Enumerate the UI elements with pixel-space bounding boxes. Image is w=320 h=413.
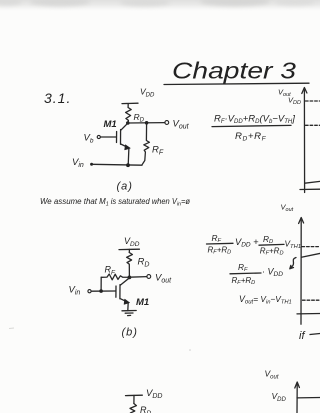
graph 1 y-axis	[302, 88, 307, 193]
svg-text:VDD +: VDD +	[235, 237, 259, 249]
resistor RF (a)	[142, 123, 149, 165]
svg-text:RF: RF	[238, 262, 248, 273]
svg-text:RD: RD	[263, 234, 273, 245]
svg-text:RD+RF: RD+RF	[235, 131, 267, 143]
stray mark mid	[189, 349, 191, 351]
resistor RF (b)	[101, 274, 129, 280]
node gate junction (b)	[99, 289, 103, 293]
resistor RD (c)	[130, 404, 136, 413]
svg-text:VDD: VDD	[272, 391, 287, 403]
svg-text:RF: RF	[152, 145, 164, 157]
graph 2 x-axis	[297, 313, 320, 315]
svg-text:Vout: Vout	[155, 273, 172, 285]
svg-text:RF+RD: RF+RD	[208, 245, 232, 255]
wire drain to Vout (a)	[128, 122, 165, 124]
graph 2 dashed upper level	[302, 246, 320, 248]
svg-text:(a): (a)	[117, 181, 133, 193]
svg-text:(b): (b)	[122, 327, 138, 339]
svg-text:· VDD: · VDD	[262, 267, 283, 279]
svg-text:if: if	[299, 330, 305, 342]
annotation arrow	[290, 258, 296, 269]
ground (b)	[122, 311, 136, 316]
equation 1 fraction bar	[212, 125, 291, 126]
svg-text:Vout= Vin−VTH1: Vout= Vin−VTH1	[239, 294, 292, 305]
resistor RD (b)	[127, 253, 133, 278]
svg-text:VTH1: VTH1	[285, 239, 302, 250]
svg-text:Vin: Vin	[72, 157, 84, 169]
svg-text:RF·VDD+RD(Vb−VTH]: RF·VDD+RD(Vb−VTH]	[214, 114, 295, 126]
svg-text:RD: RD	[138, 257, 150, 269]
wire gate (a)	[100, 136, 116, 138]
svg-text:RF: RF	[212, 233, 222, 244]
svg-text:VDD: VDD	[288, 96, 301, 107]
svg-text:Vout: Vout	[173, 119, 190, 131]
power VDD bar (c)	[126, 394, 143, 396]
svg-text:RD: RD	[134, 112, 145, 124]
terminal Vout (a)	[165, 121, 169, 125]
note if dash	[310, 334, 320, 335]
svg-text:We assume that M1 is saturated: We assume that M1 is saturated when Vin=…	[40, 196, 190, 207]
terminal Vin (a)	[90, 163, 93, 166]
svg-text:Chapter 3: Chapter 3	[172, 58, 296, 84]
wire VDD stub (b)	[128, 249, 130, 252]
svg-text:Vout: Vout	[281, 203, 294, 214]
svg-text:M1: M1	[136, 297, 149, 308]
svg-text:M1: M1	[104, 119, 117, 130]
wire VDD stub (a)	[127, 104, 129, 108]
svg-text:Vb: Vb	[84, 133, 94, 145]
stray mark left	[9, 327, 14, 330]
svg-text:VDD: VDD	[140, 87, 155, 99]
heading underline	[164, 83, 309, 84]
terminal Vout (b)	[147, 275, 151, 279]
wire gate (b)	[91, 290, 115, 292]
graph 1 curve	[305, 181, 320, 183]
svg-text:Vout: Vout	[265, 369, 279, 381]
svg-text:Vin: Vin	[69, 285, 81, 297]
svg-text:RD: RD	[140, 405, 152, 413]
node drain (a)	[126, 121, 130, 125]
wire node to Vout (b)	[129, 276, 147, 279]
transistor M1 (a)	[117, 124, 131, 165]
terminal Vb	[97, 135, 100, 138]
node output (b)	[127, 276, 131, 280]
resistor RD (a)	[126, 108, 132, 124]
power VDD bar (a)	[122, 102, 138, 104]
svg-text:RF+RD: RF+RD	[232, 276, 256, 286]
graph 2 dashed lower level	[303, 299, 320, 301]
transistor M1 (b)	[116, 278, 130, 310]
svg-text:VDD: VDD	[124, 236, 140, 248]
svg-text:RF+RD: RF+RD	[260, 246, 284, 256]
graph 1 dashed VDD level	[306, 100, 320, 102]
graph 3 VDD level line	[297, 397, 320, 399]
graph 1 x-axis	[300, 188, 320, 190]
svg-text:VDD: VDD	[146, 388, 162, 400]
svg-text:3.1.: 3.1.	[44, 90, 71, 106]
node source rail (a)	[126, 163, 130, 167]
terminal Vin (b)	[88, 290, 91, 293]
wire bottom rail (a)	[93, 163, 143, 166]
power VDD bar (b)	[119, 248, 139, 250]
wire VDD stub (c)	[133, 395, 135, 403]
wire RF left leg (b)	[100, 277, 102, 291]
graph 2 y-axis	[299, 218, 304, 325]
graph 2 curve	[301, 253, 320, 257]
graph 1 dashed mid level	[306, 124, 320, 126]
graph 3 y-axis	[295, 382, 300, 413]
node RF tap (a)	[145, 121, 149, 125]
